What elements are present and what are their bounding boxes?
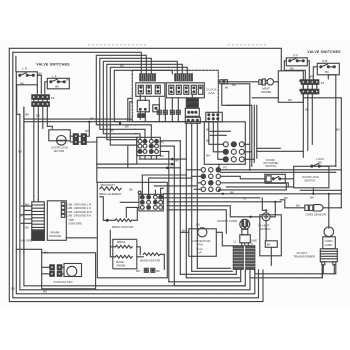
- wire hi-limit leads: [266, 202, 275, 265]
- svg-text:3400W: 3400W: [116, 263, 125, 267]
- wire supply cord leads: [242, 243, 249, 246]
- svg-text:BK: BK: [129, 187, 133, 191]
- terminal grid G2: [223, 142, 244, 162]
- wire left border line 2: [13, 52, 259, 297]
- svg-text:N: N: [251, 242, 253, 246]
- svg-text:BK: BK: [36, 113, 40, 117]
- svg-text:CAB GRD: CAB GRD: [19, 238, 32, 242]
- wire cooling fan leads: [42, 267, 64, 274]
- svg-text:BK: BK: [290, 66, 294, 70]
- wire spark module to broil box: [66, 237, 97, 239]
- wire broil box bottom pins: [136, 268, 160, 273]
- relay inside hi-limit box: [265, 241, 277, 248]
- svg-text:BK: BK: [206, 127, 210, 131]
- svg-text:BK: BK: [196, 222, 200, 226]
- svg-text:BK: BK: [136, 269, 140, 273]
- wire broil ignitor leads: [100, 197, 138, 221]
- svg-text:BK: BK: [170, 165, 174, 169]
- cooling fan connector: [50, 265, 62, 277]
- svg-text:SWITCH: SWITCH: [265, 164, 276, 168]
- svg-text:BK: BK: [110, 128, 114, 132]
- bake broil elements dashed box: [113, 239, 137, 268]
- svg-text:BK: BK: [284, 196, 288, 200]
- svg-text:BK: BK: [55, 84, 59, 88]
- wire top nest 6: [110, 67, 187, 145]
- wire G1 bottom drops: [140, 156, 157, 160]
- spark module box: [47, 201, 66, 241]
- svg-text:BK: BK: [19, 213, 23, 217]
- wire bottom bus lines: [169, 268, 246, 286]
- svg-text:BK: BK: [156, 269, 160, 273]
- svg-text:BK: BK: [230, 190, 234, 194]
- wire drops to broil grid: [142, 175, 197, 194]
- box around G2: [204, 122, 245, 165]
- svg-text:BK: BK: [25, 225, 29, 229]
- spark module pin strip: [32, 202, 45, 241]
- svg-text:BROIL ELEMENT: BROIL ELEMENT: [99, 192, 122, 196]
- svg-text:PROBE: PROBE: [261, 90, 271, 94]
- connector on bus 1: [185, 117, 200, 123]
- wire bus under clock: [24, 121, 218, 123]
- wire R.F. to P1: [284, 61, 309, 79]
- svg-text:W: W: [243, 196, 246, 200]
- oven sensor: [305, 205, 326, 217]
- broil element: [99, 183, 122, 196]
- wire P2 columns down: [34, 99, 48, 102]
- bake ignitor: [140, 253, 160, 262]
- wire G3 right lines: [221, 170, 342, 190]
- wire hi-limit top lead: [262, 198, 266, 211]
- svg-text:BK: BK: [125, 124, 129, 128]
- wire G1 right to bundle: [160, 141, 180, 152]
- connector P2 row 1: [32, 95, 55, 100]
- svg-text:OVEN SENSOR: OVEN SENSOR: [305, 212, 326, 216]
- wire 10v transformer terminals: [322, 265, 334, 278]
- wire junction dot: [119, 122, 121, 124]
- svg-text:BK: BK: [225, 85, 229, 89]
- svg-text:3600 WATT: 3600 WATT: [100, 183, 115, 187]
- svg-text:BK: BK: [38, 71, 42, 75]
- wire motor to connector: [70, 136, 81, 142]
- wire junction dots center: [171, 158, 174, 161]
- cooling fan motor: [53, 264, 81, 284]
- svg-text:BK: BK: [18, 149, 22, 153]
- svg-text:R.F.: R.F.: [293, 53, 299, 57]
- paper noise: [0, 40, 350, 308]
- wire G4 top pins: [149, 188, 164, 194]
- wire right long vertical 2: [328, 75, 336, 167]
- box right of clock: [222, 84, 250, 106]
- svg-text:SWITCH: SWITCH: [304, 178, 315, 182]
- wire left border line 3: [16, 56, 255, 293]
- clock pins below small box: [138, 114, 141, 118]
- wire box to right edge: [303, 98, 341, 208]
- wire top nest 1 to clock: [13, 52, 142, 74]
- wire bus below G1: [97, 164, 181, 182]
- wire stack drops: [189, 94, 196, 117]
- svg-text:VALVE SWITCHES: VALVE SWITCHES: [36, 62, 70, 66]
- wire G4 left: [120, 202, 139, 217]
- svg-text:P5: P5: [223, 165, 227, 169]
- junction box top right: [278, 66, 303, 102]
- valve switch R.R.: [317, 59, 339, 75]
- wire connector to center: [86, 122, 97, 142]
- lock switch: [311, 157, 326, 167]
- svg-text:BK: BK: [66, 77, 70, 81]
- wire spark module top: [34, 196, 39, 202]
- valve switch R.F.: [286, 53, 307, 66]
- clock pin shell 1: [136, 83, 165, 97]
- wire oven lamp top: [328, 194, 330, 228]
- svg-text:BAKE IGNITOR: BAKE IGNITOR: [140, 258, 160, 262]
- svg-text:BK: BK: [288, 98, 292, 102]
- oven lamp: [323, 227, 336, 249]
- wire clock left stubs: [128, 98, 133, 121]
- broil ignitor: [112, 219, 133, 229]
- svg-text:2uF: 2uF: [197, 250, 202, 254]
- cooling fan loop: [42, 253, 96, 289]
- terminal grid G1: [138, 139, 164, 153]
- svg-text:BK: BK: [182, 228, 186, 232]
- wire G1 stubs left: [128, 125, 152, 145]
- svg-text:BK: BK: [305, 107, 309, 111]
- wire top nest 7: [114, 70, 172, 121]
- svg-text:L.F.: L.F.: [52, 74, 57, 78]
- svg-text:BK: BK: [222, 78, 226, 82]
- svg-text:BROIL: BROIL: [117, 240, 126, 244]
- meat probe: [218, 79, 278, 94]
- wire outer loop: top edge, left edge, bottom edge: [9, 48, 281, 301]
- svg-text:BK: BK: [85, 129, 89, 133]
- hi-limit switch: [258, 213, 270, 231]
- wire G2 right stubs: [244, 144, 303, 159]
- wire P1 rows: [303, 84, 317, 89]
- wire bake circuit: [110, 230, 164, 269]
- wire left inner vertical: [17, 85, 24, 253]
- svg-text:BK: BK: [90, 116, 94, 120]
- svg-text:BK: BK: [267, 243, 271, 247]
- wire from L.F. switch to P2: [37, 82, 47, 94]
- connector P1 row 2: [301, 89, 319, 94]
- svg-text:BK: BK: [25, 112, 29, 116]
- wire top nest 3: [100, 58, 152, 129]
- svg-text:BK: BK: [20, 81, 24, 85]
- wire bottom right extensions: [250, 265, 335, 278]
- spark module right pins: [61, 202, 65, 217]
- supply cord: [217, 219, 250, 243]
- wire top nest 4: [103, 61, 177, 134]
- meat probe connector pins: [220, 80, 223, 84]
- svg-text:BK: BK: [206, 138, 210, 142]
- wire door lock switch bottom: [300, 188, 341, 194]
- wire oven sensor leads: [280, 200, 341, 208]
- wire bus under clock 2: [24, 118, 132, 120]
- clock small box: [137, 100, 149, 112]
- svg-text:P2: P2: [51, 96, 55, 100]
- svg-text:BK: BK: [206, 153, 210, 157]
- convection fan box: [189, 228, 217, 257]
- scan artifact dots top: [88, 44, 148, 46]
- wire bundle tops: [226, 104, 252, 106]
- wire spark module left stubs: [21, 206, 32, 223]
- connector on bus 2: [206, 112, 223, 122]
- clock bottom pins: [157, 110, 180, 114]
- svg-text:MODULE: MODULE: [49, 234, 61, 238]
- connector at door lock motor: [73, 129, 89, 145]
- clock ribbon connector 2: [175, 74, 193, 81]
- svg-text:FAN: FAN: [197, 242, 202, 246]
- wire G3 left stubs: [186, 170, 201, 190]
- svg-text:IGNITORS: IGNITORS: [68, 221, 82, 225]
- wire clock internal drops: [140, 95, 178, 110]
- terminal grid G3: [201, 165, 227, 191]
- svg-text:BK: BK: [11, 286, 15, 290]
- svg-text:GAS: GAS: [208, 91, 214, 95]
- door lock switch box: [294, 166, 329, 188]
- svg-text:VALVE SWITCHES: VALVE SWITCHES: [307, 50, 341, 54]
- svg-text:MOTOR: MOTOR: [54, 149, 64, 153]
- svg-text:SWITCH: SWITCH: [259, 227, 270, 231]
- svg-text:COOLING FAN: COOLING FAN: [53, 280, 72, 284]
- clock ribbon connector 1: [140, 74, 156, 81]
- transformer winding right: [246, 246, 255, 269]
- connector P1 row 1: [301, 80, 325, 85]
- svg-text:BK: BK: [310, 195, 314, 199]
- wire P1 down: [303, 94, 312, 158]
- wire top nest 2: [96, 55, 146, 125]
- wire bundle right of clock: [250, 105, 257, 170]
- door activated switch: [265, 174, 286, 183]
- svg-text:BK: BK: [44, 250, 48, 254]
- svg-text:BK: BK: [310, 74, 314, 78]
- wire P2 down to door lock: [43, 106, 53, 128]
- svg-text:BROIL IGNITOR: BROIL IGNITOR: [112, 225, 133, 229]
- svg-text:SUPPLY CORD: SUPPLY CORD: [217, 219, 237, 223]
- wire top nest 5: [107, 64, 183, 139]
- wire P2 down to spark module: [34, 106, 39, 199]
- wire right-side horizontals to supply area: [163, 198, 281, 234]
- connector P2 row 2: [32, 102, 50, 107]
- broil circuit box: [97, 182, 167, 277]
- clock box: [132, 70, 218, 121]
- svg-text:BK: BK: [120, 63, 124, 67]
- wire G2 internal: [209, 122, 231, 168]
- svg-text:BK: BK: [336, 127, 340, 131]
- wire from L.R. switch to P2: [37, 75, 41, 93]
- wire R.R. to P1: [313, 67, 328, 79]
- wire cooling loop feed: [16, 249, 41, 253]
- svg-text:LAMP: LAMP: [325, 243, 333, 247]
- svg-text:BK: BK: [160, 154, 164, 158]
- svg-text:R.R.: R.R.: [322, 59, 328, 63]
- wire junction dots bus: [328, 193, 330, 195]
- svg-text:BK: BK: [325, 70, 329, 74]
- wire below G3: [163, 193, 341, 195]
- clock internal connector stack P4: [185, 98, 199, 116]
- box below hi-limit: [260, 215, 282, 256]
- wire lock switch to box: [326, 165, 336, 167]
- svg-text:TRANSFORMER: TRANSFORMER: [293, 254, 315, 258]
- svg-text:BK: BK: [296, 203, 300, 207]
- clock pin shell 2: [166, 83, 204, 98]
- wire clock bottom pin drops: [140, 112, 178, 122]
- G1 grid box: [137, 137, 161, 155]
- valve switch L.R.: [16, 66, 37, 85]
- wire left border line 4: [20, 107, 250, 289]
- svg-text:P1: P1: [321, 81, 325, 85]
- wire from box to right corner: [252, 97, 278, 99]
- door lock motor: [49, 130, 71, 153]
- svg-text:L1: L1: [233, 239, 237, 243]
- transformer winding left: [233, 246, 243, 269]
- svg-text:BK: BK: [175, 158, 179, 162]
- wire convection fan leads: [180, 232, 233, 246]
- wire across below G1: [97, 122, 187, 168]
- valve switch L.F.: [47, 74, 69, 89]
- 10 volt transformer: [293, 249, 337, 265]
- box around G1 left: [97, 137, 137, 164]
- svg-text:L.R.: L.R.: [22, 66, 28, 70]
- svg-text:BK: BK: [43, 289, 47, 293]
- terminal grid G4: [138, 191, 163, 211]
- wire center bundle verticals: [169, 123, 198, 285]
- clock tiny box 2: [153, 105, 160, 112]
